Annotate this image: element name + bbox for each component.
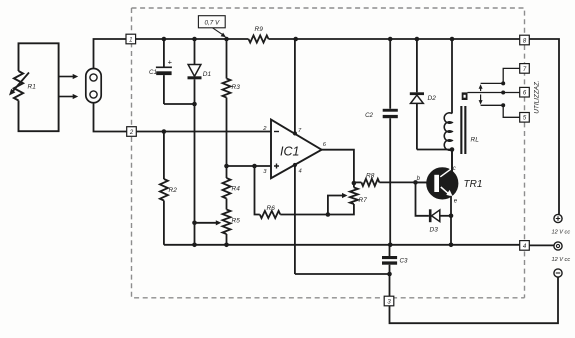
junction emitter bus — [449, 243, 454, 248]
junction contact 7 — [501, 81, 505, 85]
capacitor C1 — [163, 39, 165, 67]
wire pin7 — [294, 39, 296, 134]
svg-text:D2: D2 — [428, 95, 437, 102]
svg-text:R8: R8 — [366, 173, 375, 180]
junction R2 top — [162, 129, 167, 134]
junction C2 bus — [388, 243, 393, 248]
arrow R5 wiper — [195, 222, 217, 224]
svg-text:R5: R5 — [232, 218, 241, 225]
junction top D1 — [192, 37, 197, 42]
wire pin3 — [227, 165, 272, 167]
capacitor C2 — [389, 39, 391, 109]
callout leader arrow — [213, 28, 223, 35]
resistor R7 — [353, 183, 355, 188]
arrow R1 variable — [13, 73, 30, 92]
wire D1 line down to bus — [194, 104, 196, 245]
arrow light lower — [59, 96, 74, 98]
wire chain mid2 — [226, 199, 228, 210]
svg-text:12 V cc: 12 V cc — [552, 230, 571, 236]
wire pin4 — [294, 165, 296, 274]
node 6 — [520, 87, 530, 97]
svg-text:2: 2 — [129, 130, 134, 136]
wire R6 to R7 bottom — [280, 204, 354, 215]
symbol minus input — [274, 131, 279, 133]
svg-text:R4: R4 — [232, 186, 241, 193]
junction coil bottom — [450, 147, 455, 152]
svg-text:R3: R3 — [232, 84, 241, 91]
svg-text:0,7 V: 0,7 V — [204, 20, 220, 27]
node 2 — [127, 127, 137, 137]
wire sensor to node 1 — [94, 39, 126, 69]
resistor R6 — [260, 211, 281, 218]
svg-text:R9: R9 — [255, 26, 264, 33]
wire node2 to pin2 — [137, 131, 271, 133]
svg-text:D1: D1 — [203, 71, 212, 78]
junction top C2 — [388, 37, 393, 42]
wire sensor to node 2 — [94, 103, 127, 132]
resistor R1 — [14, 71, 23, 101]
resistor R2 — [160, 179, 168, 201]
node 3 — [384, 296, 394, 306]
junction chain pin3 — [224, 164, 229, 169]
sensor bulb outline — [86, 69, 101, 103]
pin4 edge dot — [293, 163, 297, 167]
svg-text:C2: C2 — [365, 112, 373, 119]
wire top rail left — [136, 38, 249, 40]
relay core — [460, 106, 462, 154]
sensor pin top — [90, 74, 97, 81]
junction C1D1 — [192, 102, 197, 107]
node 5 — [520, 113, 530, 123]
wire R2 bottom — [163, 201, 165, 245]
svg-text:TR1: TR1 — [464, 179, 483, 190]
wire D2 to coil bottom — [417, 149, 452, 151]
junction base D3 — [413, 180, 418, 185]
junction contact 6 — [501, 91, 505, 95]
terminal +12V — [554, 214, 562, 222]
resistor R8 — [354, 181, 362, 183]
resistor R4 — [223, 178, 231, 199]
wire node3 to minus terminal — [390, 277, 559, 323]
svg-text:1: 1 — [129, 37, 132, 43]
armature pad — [462, 92, 468, 100]
wire output — [322, 150, 354, 183]
node 1 — [126, 34, 136, 44]
svg-text:R2: R2 — [169, 187, 178, 194]
wire base — [416, 181, 431, 183]
diode D3 — [429, 209, 432, 222]
node 7 — [520, 64, 530, 74]
contact arrow up — [480, 87, 482, 92]
wire pin4 to C3 bottom — [295, 273, 390, 275]
junction D1 line bus — [192, 243, 197, 248]
sensor pin bottom — [90, 91, 97, 98]
wire contact 7 — [481, 68, 520, 83]
svg-text:+: + — [168, 58, 173, 67]
svg-text:D3: D3 — [430, 227, 439, 234]
resistor R5 preset — [223, 210, 231, 235]
junction top relay — [450, 37, 455, 42]
contact arrow down — [480, 95, 482, 103]
node 4 — [520, 241, 530, 251]
resistor R3 — [223, 79, 231, 98]
junction R6 drop — [252, 164, 257, 169]
transistor TR1 body — [427, 168, 458, 199]
wire C1 D1 bottoms — [164, 103, 195, 105]
wire base to D3 — [416, 182, 429, 215]
wire R6 drop — [255, 166, 260, 215]
capacitor C3 — [389, 245, 391, 256]
svg-text:RL: RL — [471, 137, 480, 144]
wire top rail right — [269, 38, 520, 40]
wire collector — [451, 150, 453, 172]
wire 0V bus — [164, 244, 520, 246]
relay coil RL — [451, 39, 453, 114]
op-amp IC1 — [271, 120, 322, 179]
svg-text:IC1: IC1 — [280, 145, 299, 159]
junction D3 emitter — [449, 214, 454, 219]
callout 0.7V box — [198, 16, 225, 28]
wire contact common — [468, 92, 520, 94]
arrow light upper — [59, 76, 74, 78]
wire chain mid — [226, 98, 228, 179]
junction wiper tap — [192, 221, 197, 226]
svg-text:R1: R1 — [28, 84, 37, 91]
resistor R9 — [249, 35, 269, 42]
wire contact 5 — [481, 105, 520, 117]
junction output R8 R7 — [352, 181, 357, 186]
terminal 0V — [554, 242, 562, 250]
junction top D2 — [415, 37, 420, 42]
dashed enclosure border — [132, 8, 525, 298]
wire R8 to base — [379, 181, 427, 183]
junction chain bus — [224, 243, 229, 248]
wire chain bottom — [226, 234, 228, 245]
wire R2 top — [163, 132, 165, 180]
svg-text:UTILIZZAZ.: UTILIZZAZ. — [534, 80, 541, 113]
wire bus to mid terminal — [529, 244, 554, 246]
wire emitter — [450, 196, 452, 245]
arrow R7 wiper — [328, 196, 342, 215]
svg-text:C1: C1 — [149, 69, 157, 76]
symbol plus input — [274, 164, 279, 169]
junction wiper R7 — [326, 212, 331, 217]
terminal -12V — [554, 269, 562, 277]
wire chain top — [226, 39, 228, 79]
svg-text:12 V cc: 12 V cc — [552, 257, 571, 263]
junction contact 5 — [501, 103, 505, 107]
svg-text:C3: C3 — [400, 258, 408, 265]
junction top R3 — [224, 37, 229, 42]
wire +12V feed — [529, 39, 559, 214]
pin7 edge dot — [293, 131, 297, 135]
junction top C1 — [162, 37, 167, 42]
node 8 — [520, 35, 530, 45]
svg-text:R7: R7 — [359, 197, 368, 204]
svg-text:c: c — [453, 166, 456, 172]
junction C3 bottom — [387, 272, 392, 277]
svg-text:4: 4 — [299, 169, 302, 175]
junction top pin7 — [293, 37, 298, 42]
wire loop left sensor — [19, 43, 59, 131]
svg-text:R6: R6 — [267, 205, 276, 212]
diode D2 — [416, 39, 418, 92]
diode D1 — [194, 39, 196, 65]
